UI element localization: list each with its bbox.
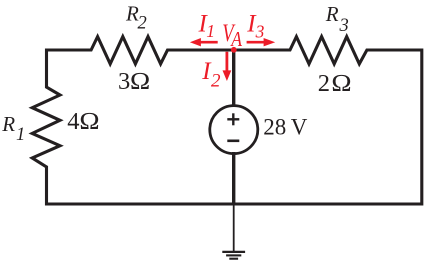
svg-text:1: 1 xyxy=(206,21,215,41)
svg-text:A: A xyxy=(230,27,243,51)
svg-text:3: 3 xyxy=(118,68,130,95)
svg-text:1: 1 xyxy=(16,125,25,145)
svg-text:2: 2 xyxy=(211,71,221,92)
svg-text:R: R xyxy=(1,112,15,136)
svg-text:2: 2 xyxy=(138,14,147,34)
svg-text:Ω: Ω xyxy=(79,107,100,134)
svg-text:Ω: Ω xyxy=(331,69,352,96)
svg-text:4: 4 xyxy=(67,108,79,135)
svg-text:3: 3 xyxy=(339,16,349,36)
svg-text:Ω: Ω xyxy=(130,67,151,94)
svg-text:2: 2 xyxy=(318,70,330,97)
svg-text:3: 3 xyxy=(255,21,265,41)
svg-text:R: R xyxy=(325,2,339,26)
svg-text:28 V: 28 V xyxy=(263,115,308,140)
